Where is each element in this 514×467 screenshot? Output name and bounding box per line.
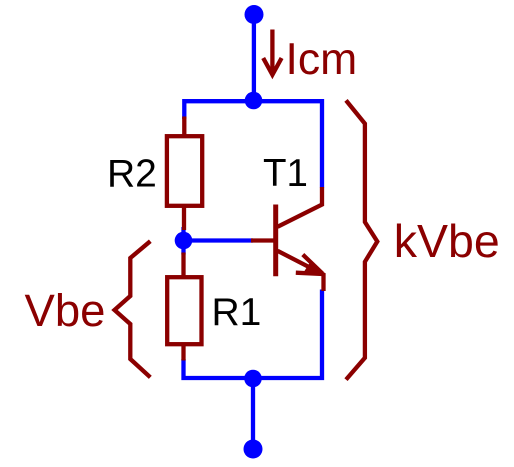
svg-text:Icm: Icm — [286, 35, 358, 84]
svg-text:Vbe: Vbe — [25, 285, 106, 336]
node: top terminal — [245, 5, 264, 24]
resistor R1 — [167, 253, 201, 361]
arrow Icm — [263, 30, 281, 75]
wire: R2 bottom to node to R1 top — [181, 227, 185, 255]
svg-text:R2: R2 — [107, 153, 157, 196]
svg-text:kVbe: kVbe — [394, 215, 500, 267]
brace kVbe (right) — [346, 100, 377, 379]
node: base junction — [175, 232, 193, 250]
resistor R2 — [167, 117, 202, 231]
transistor T1 — [251, 187, 324, 291]
wire: bottom rail with left and right risers — [184, 290, 323, 379]
node: bottom terminal — [244, 440, 263, 459]
wire: base wire — [184, 238, 254, 242]
wire: top rail with left and right drops — [184, 101, 322, 187]
node: top junction — [245, 92, 263, 110]
wire: top stub — [252, 15, 256, 101]
svg-text:R1: R1 — [212, 291, 262, 334]
node: bottom junction — [244, 370, 262, 388]
svg-text:T1: T1 — [263, 152, 308, 195]
wire: bottom stub — [251, 378, 255, 449]
brace Vbe (left) — [115, 241, 151, 377]
